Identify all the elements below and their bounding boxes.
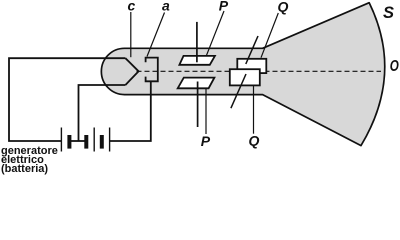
- Q deflection plate (rear): [237, 59, 266, 73]
- svg-text:O: O: [390, 57, 399, 74]
- svg-text:c: c: [128, 0, 136, 14]
- battery short thick plate 3: [100, 135, 104, 149]
- svg-text:P: P: [201, 133, 211, 149]
- P deflection plate (bottom, parallelogram): [178, 78, 215, 89]
- wire: top P plate lead: [196, 22, 198, 62]
- battery long plate 1: [60, 128, 62, 152]
- svg-text:Q: Q: [249, 133, 260, 149]
- anode a (open cylinder bracket): [146, 58, 158, 82]
- wire: cathode top lead (left loop): [9, 58, 125, 141]
- battery short thick plate 2: [84, 135, 88, 149]
- cathode c (filament chevron): [125, 58, 138, 85]
- wire: rear Q plate lead: [246, 36, 258, 64]
- leader line for label c: [130, 12, 132, 57]
- leader line for label Q (top): [261, 13, 278, 58]
- leader line for label P (top): [206, 11, 224, 56]
- svg-text:a: a: [162, 0, 170, 14]
- svg-text:Q: Q: [278, 0, 289, 15]
- wire: cathode bottom lead to battery tap: [79, 85, 126, 141]
- leader line for label P (bottom): [205, 89, 207, 135]
- dashed beam axis to O: [137, 70, 382, 72]
- battery long plate 3: [109, 128, 111, 152]
- Q deflection plate (front): [230, 69, 260, 85]
- svg-text:S: S: [383, 4, 394, 22]
- wire: anode lead down and left to battery +: [110, 81, 151, 141]
- CRT tube envelope (gray glass body: neck, cone, screen): [101, 3, 384, 146]
- leader line for label a: [147, 13, 165, 57]
- battery tap jumper: [71, 140, 85, 142]
- caption: generatore elettrico (batteria): [1, 147, 58, 174]
- label O (axis point): [390, 57, 399, 74]
- svg-text:P: P: [219, 0, 229, 14]
- battery short thick plate 1: [67, 135, 71, 149]
- leader line for label Q (bottom): [253, 86, 255, 134]
- P deflection plate (top, parallelogram): [179, 56, 215, 65]
- battery long plate 2: [93, 128, 95, 152]
- wire: bottom P plate lead: [197, 82, 199, 128]
- wire: front Q plate lead: [231, 74, 246, 108]
